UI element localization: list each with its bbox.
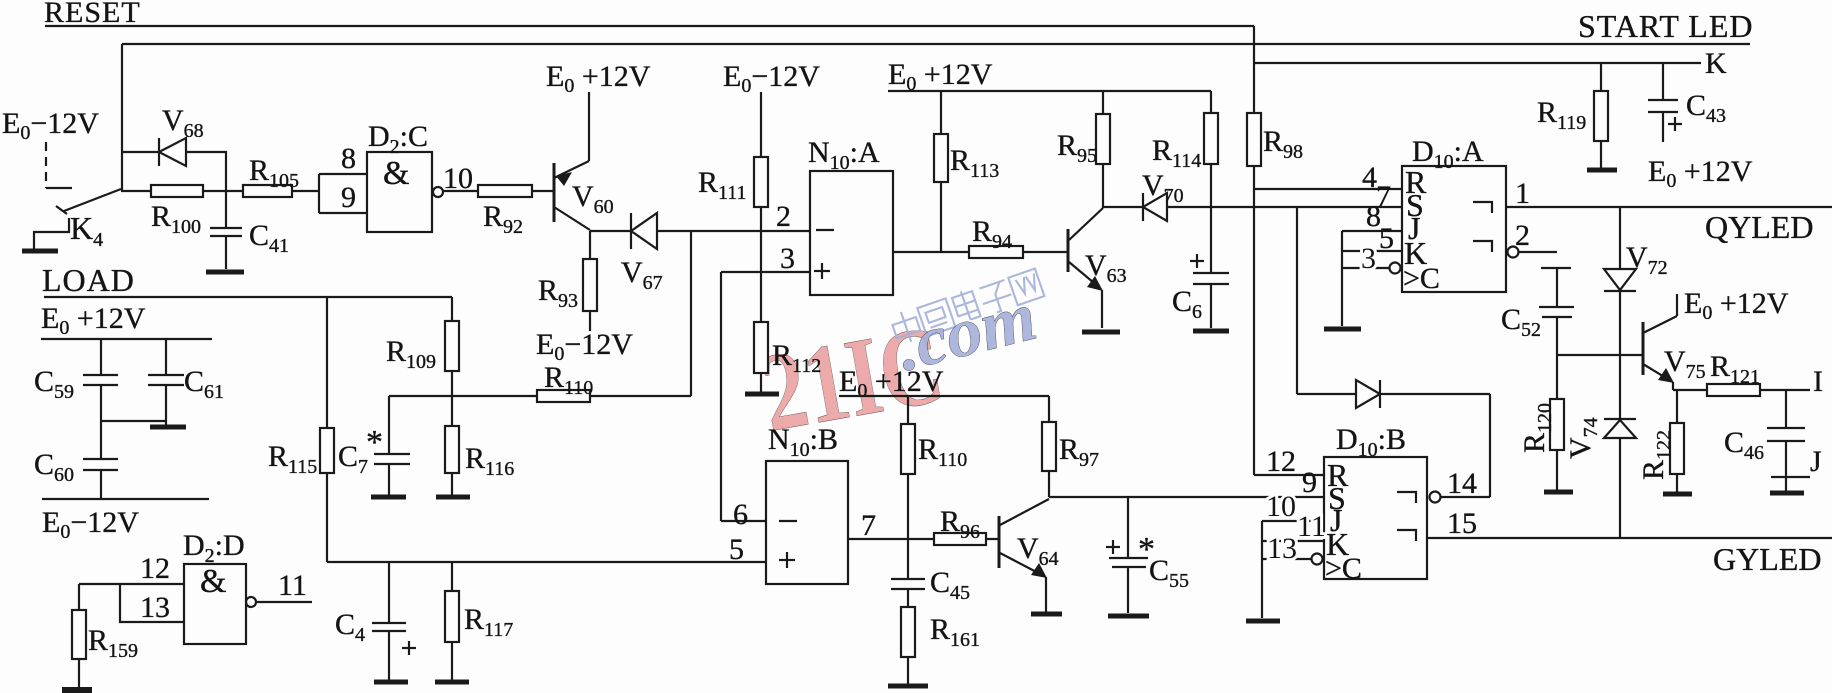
svg-text:>C: >C	[1403, 262, 1440, 295]
svg-text:V60: V60	[572, 180, 614, 218]
wire LOAD rail	[44, 296, 452, 298]
svg-text:D2:C: D2:C	[368, 120, 428, 158]
svg-text:11: 11	[278, 569, 307, 602]
wire junction down to V67 node	[690, 231, 692, 396]
resistor R161	[901, 607, 915, 657]
ground below R112	[745, 392, 779, 397]
svg-text:R93: R93	[538, 274, 578, 312]
svg-text:10: 10	[1266, 490, 1296, 523]
svg-text:&: &	[383, 155, 409, 192]
ground below K4	[22, 249, 58, 254]
wire V60 emitter to E0+12V	[588, 92, 590, 161]
svg-text:4: 4	[1362, 161, 1377, 194]
svg-text:R92: R92	[483, 200, 523, 238]
wire R109 bottom junction row	[389, 395, 691, 397]
svg-text:15: 15	[1447, 507, 1477, 540]
ground below V64	[1031, 612, 1062, 617]
ground below C4	[374, 680, 408, 685]
resistor R100	[151, 185, 203, 197]
svg-text:C60: C60	[34, 448, 74, 486]
wire V63 collector row to D10:A S pin	[1102, 206, 1143, 208]
resistor R116	[445, 426, 459, 473]
resistor R94	[969, 246, 1023, 258]
resistor R115	[326, 297, 328, 428]
svg-text:12: 12	[1266, 445, 1296, 478]
capacitor C46	[1785, 390, 1787, 428]
svg-text:LOAD: LOAD	[42, 262, 135, 298]
node E0 -12V left block	[42, 498, 209, 500]
svg-text:9: 9	[341, 181, 356, 214]
svg-text:V67: V67	[621, 256, 663, 294]
ground below R161	[888, 684, 928, 689]
D10:B Q corner marks	[1397, 492, 1416, 503]
svg-text:14: 14	[1447, 467, 1477, 500]
svg-text:START LED: START LED	[1578, 8, 1753, 44]
resistor R98 on RESET vertical	[1253, 26, 1255, 475]
svg-text:R110: R110	[918, 433, 967, 471]
diode V70	[1142, 193, 1144, 221]
resistor R93	[589, 231, 591, 331]
svg-text:E0−12V: E0−12V	[536, 328, 633, 365]
diode V67	[630, 213, 632, 249]
D10:A Q corner marks	[1473, 202, 1492, 213]
wire from S row down to diode row	[1296, 207, 1298, 394]
gate D2:D output bubble pin 11	[246, 597, 256, 607]
svg-text:E0 +12V: E0 +12V	[1648, 155, 1753, 192]
ground below R159	[62, 687, 92, 693]
resistor R97	[1048, 396, 1050, 422]
ground below V63	[1082, 330, 1120, 335]
ground below R116	[436, 495, 470, 500]
svg-text:2: 2	[1515, 219, 1530, 252]
svg-text:R98: R98	[1263, 125, 1303, 163]
svg-text:RESET: RESET	[44, 0, 141, 29]
svg-text:E0−12V: E0−12V	[42, 506, 139, 543]
resistor R95	[1102, 91, 1104, 114]
svg-text:R119: R119	[1537, 96, 1586, 134]
wire J terminal	[1771, 476, 1810, 478]
svg-text:R113: R113	[950, 144, 999, 182]
svg-text:R110: R110	[544, 361, 593, 399]
capacitor C61	[165, 339, 167, 375]
svg-text:R96: R96	[940, 505, 980, 543]
D10:A output pin 1 wire to QYLED	[1506, 206, 1832, 208]
ground below R122	[1663, 492, 1692, 497]
opamp N10:B box	[766, 461, 848, 584]
svg-text:>C: >C	[1325, 552, 1362, 585]
capacitor C55 polarized	[1127, 497, 1129, 558]
gate D2:C input bracket pins 8 9	[319, 173, 367, 175]
svg-text:E0 +12V: E0 +12V	[41, 302, 146, 339]
gate D2:D inputs 12 13	[79, 583, 184, 585]
ground below R117	[435, 680, 469, 685]
svg-text:E0 +12V: E0 +12V	[1684, 287, 1789, 324]
svg-text:D10:B: D10:B	[1336, 423, 1406, 461]
resistor R110 horizontal	[537, 390, 590, 402]
ground below D10:B bracket	[1246, 619, 1280, 624]
svg-text:R94: R94	[972, 215, 1012, 253]
ground below R120	[1544, 490, 1573, 495]
svg-text:R95: R95	[1057, 129, 1097, 167]
resistor R121	[1707, 384, 1760, 396]
svg-text:C61: C61	[184, 365, 224, 403]
wire R97/V64 collector row to D10:B S pin	[1049, 496, 1324, 498]
wire RESET rail	[45, 25, 1254, 27]
diode V68	[158, 138, 160, 166]
D10:B output pin 15 wire GYLED row	[1427, 537, 1832, 539]
svg-text:E0 +12V: E0 +12V	[546, 60, 651, 97]
svg-text:5: 5	[1379, 222, 1394, 255]
svg-text:I: I	[1813, 365, 1823, 398]
transistor V64	[998, 516, 1001, 568]
svg-text:*: *	[366, 424, 383, 461]
wire diode row to D10:B pin14	[1297, 393, 1356, 395]
svg-text:1: 1	[1515, 177, 1530, 210]
opamp N10:A box	[810, 171, 893, 295]
diode V74	[1604, 418, 1636, 420]
svg-text:R117: R117	[464, 603, 513, 641]
svg-text:R114: R114	[1152, 134, 1201, 172]
svg-text:K4: K4	[70, 210, 103, 251]
svg-text:C4: C4	[335, 608, 365, 646]
resistor R120	[1550, 399, 1564, 450]
wire second top rail (START LED underline)	[122, 43, 1750, 45]
wire N10:B pin5 row	[327, 561, 766, 563]
svg-text:C52: C52	[1501, 303, 1541, 341]
svg-text:V63: V63	[1085, 249, 1127, 287]
svg-text:C6: C6	[1172, 285, 1202, 323]
ground below C55	[1108, 614, 1149, 619]
capacitor C43 polarized	[1662, 63, 1664, 100]
resistor R112	[754, 322, 768, 373]
svg-text:11: 11	[1297, 510, 1326, 543]
capacitor C7	[388, 396, 390, 454]
svg-text:V70: V70	[1142, 169, 1184, 207]
svg-text:N10:A: N10:A	[808, 136, 880, 174]
svg-text:R159: R159	[88, 624, 138, 662]
D10:B output pin 14 bubble	[1430, 492, 1441, 503]
svg-text:6: 6	[733, 498, 748, 531]
resistor R92	[478, 185, 532, 197]
svg-text:E0−12V: E0−12V	[723, 60, 820, 97]
D10:B input bracket pins 11 13	[1261, 521, 1263, 618]
wire V72/V74 vertical	[1619, 207, 1621, 538]
svg-text:3: 3	[780, 242, 795, 275]
capacitor C45	[907, 539, 909, 579]
wire V75 base row	[1557, 354, 1643, 356]
pin 3 wire and plus	[721, 271, 810, 273]
pin 6 wire and minus	[721, 520, 766, 522]
switch K4 fixed contact and lead	[34, 218, 69, 249]
watermark chinese characters blue	[889, 266, 1044, 346]
svg-text:13: 13	[140, 591, 170, 624]
capacitor C4 polarized	[388, 562, 390, 623]
svg-text:E0 +12V: E0 +12V	[888, 58, 993, 95]
svg-text:R116: R116	[465, 442, 514, 480]
resistor R109	[451, 297, 453, 321]
resistor R96	[934, 533, 986, 545]
svg-text:&: &	[200, 563, 226, 600]
wire N10:A output row	[893, 251, 1068, 253]
flip-flop D10:B box	[1324, 457, 1427, 579]
svg-text:R100: R100	[151, 200, 201, 238]
capacitor C52	[1541, 267, 1571, 269]
svg-text:V74: V74	[1564, 417, 1602, 459]
resistor R113	[940, 91, 942, 134]
resistor R117	[451, 562, 453, 591]
svg-text:R121: R121	[1710, 350, 1760, 388]
diode between S row and pin14	[1379, 380, 1381, 408]
svg-text:V75: V75	[1664, 345, 1706, 383]
wire V68 bypass branch	[122, 151, 158, 153]
svg-text:R109: R109	[386, 335, 436, 373]
svg-text:3: 3	[1361, 242, 1376, 275]
gate D2:C box	[367, 152, 432, 232]
resistor R122	[1676, 390, 1678, 423]
transistor V75	[1642, 322, 1645, 375]
D10:A input bracket pins 8 5 3	[1341, 231, 1343, 326]
svg-text:R105: R105	[249, 154, 299, 192]
transistor V63	[1067, 229, 1070, 272]
wire R111/R112 vertical through pin2 node	[760, 231, 762, 322]
flip-flop D10:A box	[1402, 166, 1506, 292]
ground below D10:A bracket	[1324, 327, 1361, 332]
svg-text:2: 2	[776, 200, 791, 233]
svg-text:8: 8	[341, 142, 356, 175]
svg-text:R161: R161	[930, 613, 980, 651]
svg-text:5: 5	[729, 533, 744, 566]
wire V75 collector node row	[1673, 389, 1810, 391]
wire N10:B output pin 7 row	[848, 538, 999, 540]
svg-text:J: J	[1810, 445, 1822, 478]
capacitor C60	[83, 458, 118, 460]
switch K4 arm	[64, 189, 121, 211]
ground below C61	[150, 425, 186, 430]
resistor R110 vertical	[907, 396, 909, 424]
svg-text:V64: V64	[1017, 532, 1059, 570]
svg-text:GYLED: GYLED	[1713, 541, 1821, 577]
svg-text:13: 13	[1267, 532, 1297, 565]
svg-text:C55: C55	[1149, 554, 1189, 592]
ground below C41	[206, 270, 244, 275]
capacitor C59	[100, 339, 102, 375]
svg-text:C7: C7	[338, 440, 368, 478]
diode V72	[1604, 269, 1636, 290]
ground below R119	[1587, 168, 1617, 173]
resistor R111	[760, 92, 762, 157]
svg-text:D2:D: D2:D	[183, 529, 245, 567]
wire left vertical from top rail to K4 node	[121, 44, 123, 191]
svg-text:QYLED: QYLED	[1705, 209, 1813, 245]
wire K line	[1254, 62, 1701, 64]
wire V60 collector node row	[590, 230, 631, 232]
svg-text:K: K	[1705, 47, 1727, 80]
svg-text:E0−12V: E0−12V	[2, 107, 99, 144]
svg-text:R111: R111	[698, 166, 747, 204]
wire joining C59 C61 bottoms	[101, 420, 166, 422]
svg-text:C45: C45	[930, 566, 970, 604]
D10:A output pin 2 bubble	[1508, 247, 1519, 258]
svg-text:C59: C59	[34, 365, 74, 403]
wire dashed leader from E0-12V label	[45, 142, 47, 188]
svg-text:10: 10	[443, 162, 473, 195]
svg-text:9: 9	[1302, 466, 1317, 499]
gate D2:D box	[184, 564, 246, 644]
svg-text:12: 12	[140, 552, 170, 585]
wire D10:B R pin from RESET vertical	[1254, 474, 1324, 476]
ground below C6	[1193, 329, 1229, 334]
resistor R159	[78, 584, 80, 610]
svg-text:7: 7	[861, 509, 876, 542]
svg-text:C41: C41	[249, 219, 289, 257]
svg-text:R97: R97	[1059, 433, 1099, 471]
resistor R105	[243, 185, 292, 197]
gate D2:C output bubble pin 10	[433, 187, 443, 197]
ground below C7	[371, 495, 406, 500]
transistor V60	[553, 163, 556, 222]
svg-text:R122: R122	[1637, 430, 1675, 480]
svg-text:C43: C43	[1686, 89, 1726, 127]
wire pin3 down to N10:B pin6	[720, 272, 722, 521]
capacitor C6 polarized	[1193, 272, 1229, 274]
svg-text:V68: V68	[162, 104, 204, 142]
resistor R119	[1600, 63, 1602, 91]
capacitor C41	[225, 191, 227, 228]
wire main node row to gate input	[121, 190, 319, 192]
resistor R114	[1210, 91, 1212, 113]
svg-text:R115: R115	[268, 440, 317, 478]
svg-text:V72: V72	[1626, 241, 1668, 279]
svg-text:C46: C46	[1724, 426, 1764, 464]
ground below C46	[1770, 491, 1804, 496]
svg-text:R120: R120	[1518, 403, 1556, 453]
wire D10:A pin4 R input	[1254, 188, 1402, 190]
